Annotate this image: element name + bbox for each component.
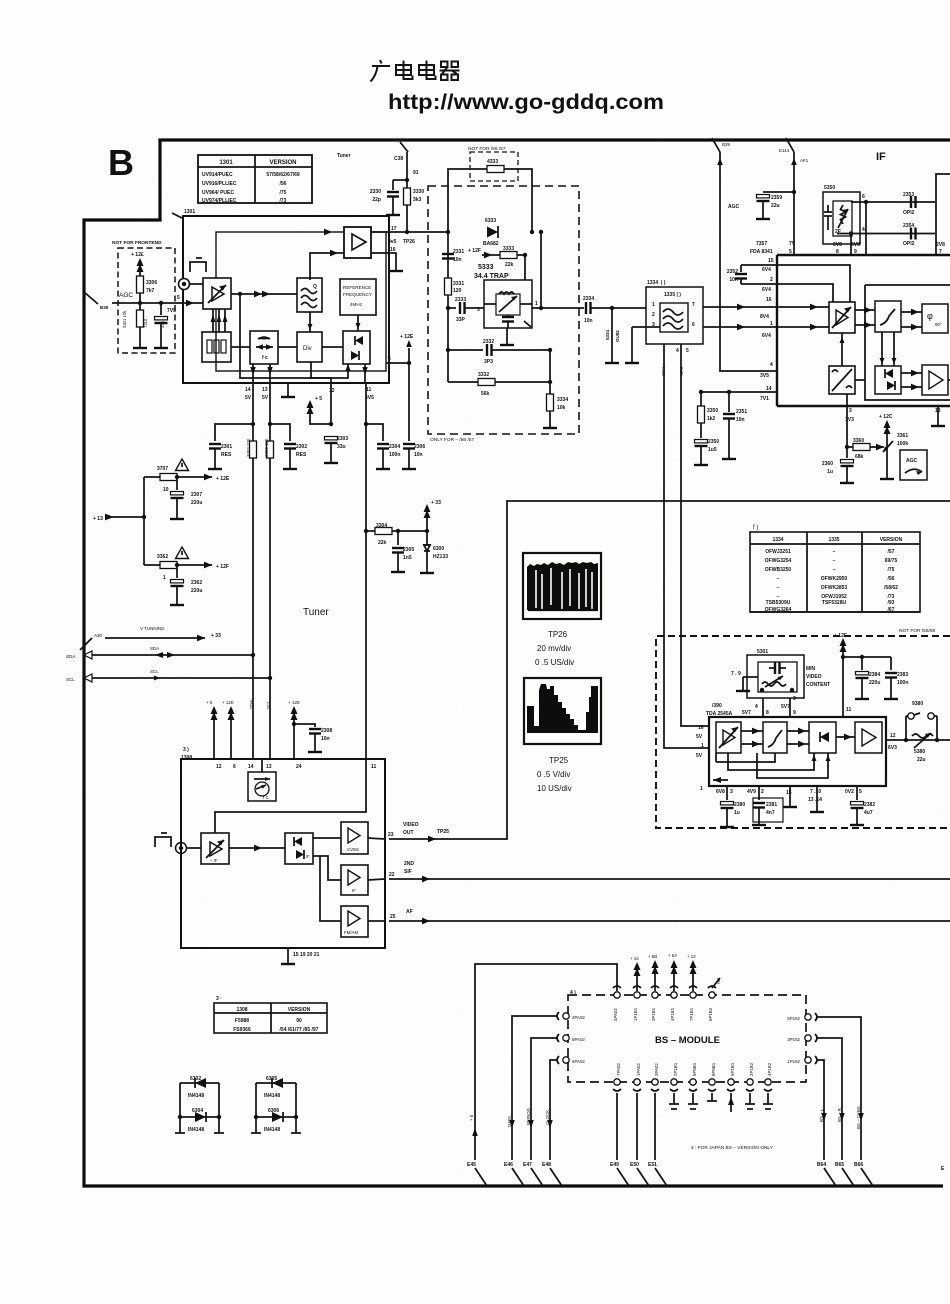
svg-text:13 .14: 13 .14 <box>808 797 822 803</box>
svg-text:MIN: MIN <box>806 666 816 672</box>
svg-text:5V: 5V <box>245 395 252 401</box>
svg-text:2354: 2354 <box>903 223 914 229</box>
svg-text:22: 22 <box>389 872 395 878</box>
svg-text:B39: B39 <box>100 305 109 310</box>
svg-text:7 .10: 7 .10 <box>810 789 821 795</box>
svg-text:/57: /57 <box>888 549 895 555</box>
svg-text:9: 9 <box>793 710 796 716</box>
svg-text:2384: 2384 <box>869 672 880 678</box>
svg-text:3334: 3334 <box>557 397 568 403</box>
svg-text:RES: RES <box>221 452 232 458</box>
svg-text:5: 5 <box>859 789 862 795</box>
svg-text:BS – MODULE: BS – MODULE <box>655 1035 720 1046</box>
svg-text:FREQUENCY: FREQUENCY <box>343 292 372 297</box>
svg-text:AF: AF <box>406 909 413 915</box>
svg-text:6P1B2: 6P1B2 <box>708 1007 713 1021</box>
svg-text:SCL: SCL <box>66 677 75 682</box>
svg-text:220u: 220u <box>191 588 202 594</box>
svg-text:/73: /73 <box>280 198 287 204</box>
svg-text:3360: 3360 <box>853 438 864 444</box>
svg-text:1: 1 <box>652 302 655 308</box>
svg-text:IN4148: IN4148 <box>188 1127 204 1133</box>
svg-text:2P1B1: 2P1B1 <box>673 1062 678 1076</box>
svg-text:3P162: 3P162 <box>787 1037 800 1042</box>
svg-text:2PA02: 2PA02 <box>572 1015 585 1020</box>
svg-text:3332: 3332 <box>478 372 489 378</box>
svg-text:6: 6 <box>692 322 695 328</box>
svg-text:UV964/ PUEC: UV964/ PUEC <box>202 190 234 196</box>
svg-text:1n5: 1n5 <box>403 555 412 561</box>
svg-text:B64: B64 <box>817 1162 826 1168</box>
svg-text:6304: 6304 <box>192 1108 203 1114</box>
svg-text:–: – <box>833 558 836 564</box>
svg-text:+ IF: + IF <box>210 858 218 863</box>
svg-text:10n: 10n <box>321 736 330 742</box>
svg-text:SCL: SCL <box>150 669 159 674</box>
svg-text:6333: 6333 <box>485 218 496 224</box>
svg-text:+ 12F: + 12F <box>834 633 847 639</box>
svg-text:2359: 2359 <box>771 195 782 201</box>
svg-text:1301: 1301 <box>219 160 233 166</box>
svg-text:4: 4 <box>755 704 758 710</box>
svg-text:VERSION: VERSION <box>880 537 903 543</box>
svg-text:220u: 220u <box>869 680 880 686</box>
svg-text:5: 5 <box>686 348 689 354</box>
svg-text:3: 3 <box>730 789 733 795</box>
svg-text:/67: /67 <box>888 607 895 613</box>
svg-text:6V8: 6V8 <box>851 242 860 248</box>
svg-text:3: 3 <box>793 696 796 702</box>
svg-text:3301 10k: 3301 10k <box>122 310 127 328</box>
svg-text:+ 5: + 5 <box>469 1114 474 1121</box>
svg-text:3k3: 3k3 <box>413 197 422 203</box>
svg-text:/93: /93 <box>888 600 895 606</box>
svg-text:3350: 3350 <box>707 408 718 414</box>
svg-text:6V4: 6V4 <box>762 333 771 339</box>
svg-text:–: – <box>777 576 780 582</box>
svg-text:90°: 90° <box>935 322 942 327</box>
svg-text:6V4: 6V4 <box>762 267 771 273</box>
svg-text:HD: HD <box>716 978 721 984</box>
svg-text:1308: 1308 <box>236 1007 247 1013</box>
svg-text:11: 11 <box>371 764 377 770</box>
svg-text:3P1B1: 3P1B1 <box>651 1007 656 1021</box>
svg-text:2301: 2301 <box>221 444 232 450</box>
svg-text:VERSION: VERSION <box>288 1007 311 1013</box>
svg-text:14: 14 <box>766 386 772 392</box>
svg-text:3362: 3362 <box>157 554 168 560</box>
svg-text:8: 8 <box>766 710 769 716</box>
svg-text:AF1: AF1 <box>800 158 809 163</box>
svg-text:–: – <box>777 585 780 591</box>
svg-text:BA682: BA682 <box>483 241 499 247</box>
svg-text:AGC: AGC <box>728 204 740 210</box>
svg-text:1P1B1: 1P1B1 <box>633 1007 638 1021</box>
svg-text:C38: C38 <box>394 156 403 162</box>
svg-text:8P5B1: 8P5B1 <box>711 1062 716 1076</box>
svg-text:16: 16 <box>390 247 396 253</box>
svg-text:4P1B1: 4P1B1 <box>670 1007 675 1021</box>
svg-text:22u: 22u <box>771 203 780 209</box>
svg-text:15 19 20 21: 15 19 20 21 <box>293 952 320 958</box>
svg-text:1: 1 <box>701 743 704 749</box>
svg-text:E46: E46 <box>504 1162 513 1168</box>
svg-text:SDA: SDA <box>66 654 75 659</box>
svg-text:5P5B1: 5P5B1 <box>692 1062 697 1076</box>
svg-text:3361: 3361 <box>897 433 908 439</box>
svg-text:15: 15 <box>768 258 774 264</box>
svg-text:Tuner: Tuner <box>303 607 329 618</box>
svg-text:2362: 2362 <box>191 580 202 586</box>
svg-text:7V1: 7V1 <box>760 396 769 402</box>
svg-text:69/75: 69/75 <box>885 558 898 564</box>
svg-text:4n7: 4n7 <box>766 810 775 816</box>
svg-text:2ND: 2ND <box>404 861 414 867</box>
svg-text:1334 | ): 1334 | ) <box>647 280 666 286</box>
svg-text:SDA: SDA <box>249 700 254 709</box>
svg-text:6300: 6300 <box>433 546 444 552</box>
svg-text:Tuner: Tuner <box>337 153 351 159</box>
svg-text:1u: 1u <box>734 810 740 816</box>
svg-text:1k2: 1k2 <box>707 416 716 422</box>
svg-text:22k: 22k <box>378 540 387 546</box>
svg-text:+ 12E: + 12E <box>288 700 300 705</box>
svg-text:1335 | ): 1335 | ) <box>664 292 681 298</box>
svg-text:2V8: 2V8 <box>936 242 945 248</box>
svg-text:3PA02: 3PA02 <box>654 1063 659 1076</box>
svg-text:14: 14 <box>245 387 251 393</box>
svg-text:F5988: F5988 <box>235 1018 249 1024</box>
svg-text:1u: 1u <box>827 469 833 475</box>
svg-text:5P162: 5P162 <box>787 1016 800 1021</box>
svg-text:4PA02: 4PA02 <box>613 1008 618 1021</box>
svg-text:2350: 2350 <box>708 439 719 445</box>
svg-text:1: 1 <box>770 321 773 327</box>
svg-text:Q: Q <box>313 284 317 290</box>
svg-text:/390: /390 <box>712 703 722 709</box>
svg-text:Div: Div <box>303 346 312 352</box>
svg-text:ONLY FOR – /56 /57: ONLY FOR – /56 /57 <box>430 437 474 443</box>
svg-text:13: 13 <box>262 387 268 393</box>
svg-text:+ 5: + 5 <box>315 396 322 402</box>
svg-text:SDA: SDA <box>150 646 159 651</box>
svg-text:17: 17 <box>391 226 397 232</box>
svg-text:SIF2: SIF2 <box>679 366 684 376</box>
svg-text:20 mv/div: 20 mv/div <box>537 644 571 653</box>
svg-text:2330: 2330 <box>370 189 381 195</box>
svg-text:–: – <box>833 549 836 555</box>
svg-text:IF: IF <box>876 151 886 163</box>
svg-text:8v5: 8v5 <box>388 239 397 245</box>
svg-text:13: 13 <box>266 764 272 770</box>
svg-text:10 US/div: 10 US/div <box>537 784 572 793</box>
svg-text:5350: 5350 <box>824 185 835 191</box>
svg-text:IN4148: IN4148 <box>188 1093 204 1099</box>
svg-text:OFWK2853: OFWK2853 <box>821 585 848 591</box>
svg-text:IN4148: IN4148 <box>264 1127 280 1133</box>
svg-text:FDA 8341: FDA 8341 <box>750 249 773 255</box>
svg-text:16: 16 <box>766 297 772 303</box>
svg-text:OUT: OUT <box>403 830 414 836</box>
svg-text:4: 4 <box>676 348 679 354</box>
svg-text:3P3: 3P3 <box>484 359 493 365</box>
svg-text:1V3: 1V3 <box>845 417 854 423</box>
svg-text:OFWK2950: OFWK2950 <box>821 576 848 582</box>
svg-text:5380: 5380 <box>914 749 925 755</box>
svg-text:http://www.go-gddq.com: http://www.go-gddq.com <box>388 91 664 114</box>
svg-text:3: 3 <box>477 307 480 313</box>
svg-text:7k7: 7k7 <box>146 288 155 294</box>
svg-text:φ: φ <box>927 311 933 321</box>
svg-text:2P1B2: 2P1B2 <box>749 1062 754 1076</box>
svg-text:/75: /75 <box>280 190 287 196</box>
svg-text:100k: 100k <box>897 441 908 447</box>
svg-text:SCL: SCL <box>266 700 271 709</box>
svg-text:5V: 5V <box>262 395 269 401</box>
svg-text:+ 12E: + 12E <box>222 700 234 705</box>
svg-text:5301: 5301 <box>757 649 768 655</box>
svg-text:2: 2 <box>761 789 764 795</box>
svg-text:33P: 33P <box>456 317 466 323</box>
svg-text:+ 33: + 33 <box>431 500 441 506</box>
svg-text:NOT FOR FRONTEND: NOT FOR FRONTEND <box>112 240 162 246</box>
svg-text:4: 4 <box>862 227 865 233</box>
svg-text:25: 25 <box>390 914 396 920</box>
svg-text:/56: /56 <box>280 181 287 187</box>
svg-text:+ 13: + 13 <box>93 516 103 522</box>
svg-text:34.4 TRAP: 34.4 TRAP <box>474 273 509 280</box>
svg-text:3304: 3304 <box>376 523 387 529</box>
svg-text:TP26: TP26 <box>403 239 415 245</box>
svg-text:V TUNNING: V TUNNING <box>140 626 165 631</box>
svg-text:–: – <box>833 567 836 573</box>
svg-text:220u: 220u <box>191 500 202 506</box>
svg-text:TSF5328U: TSF5328U <box>822 600 847 606</box>
svg-text:1: 1 <box>700 786 703 792</box>
svg-text:B: B <box>108 142 134 183</box>
svg-text:NOT FOR /56/58: NOT FOR /56/58 <box>899 628 935 634</box>
svg-text:4333: 4333 <box>487 159 498 165</box>
svg-text:10n: 10n <box>584 318 593 324</box>
svg-text:4: 4 <box>770 362 773 368</box>
svg-text:12: 12 <box>890 733 896 739</box>
svg-text:7357: 7357 <box>756 241 767 247</box>
svg-text:16: 16 <box>698 725 704 731</box>
svg-text:3331: 3331 <box>453 281 464 287</box>
svg-text:TSB5309U: TSB5309U <box>766 600 791 606</box>
svg-text:10n: 10n <box>729 277 738 283</box>
svg-text:FS9366: FS9366 <box>233 1027 251 1033</box>
svg-text:5V: 5V <box>696 734 703 740</box>
svg-text:UV916/PLLIEC: UV916/PLLIEC <box>202 181 237 187</box>
svg-text:f C: f C <box>263 795 270 800</box>
svg-text:6V8: 6V8 <box>833 242 842 248</box>
svg-text:4u7: 4u7 <box>864 810 873 816</box>
svg-text:+ 12E: + 12E <box>216 476 230 482</box>
svg-text:56k: 56k <box>481 391 490 397</box>
svg-text:IF: IF <box>306 854 310 859</box>
svg-text:3333: 3333 <box>503 246 514 252</box>
svg-text:2353: 2353 <box>903 192 914 198</box>
svg-text:SIF: SIF <box>404 869 412 875</box>
svg-text:15: 15 <box>786 790 792 796</box>
svg-text:1: 1 <box>163 575 166 581</box>
svg-text:9380: 9380 <box>912 701 923 707</box>
svg-text:REFERENCE: REFERENCE <box>343 285 371 290</box>
svg-text:1334: 1334 <box>772 537 783 543</box>
svg-text:5V7: 5V7 <box>742 710 751 716</box>
svg-text:6V8: 6V8 <box>716 789 725 795</box>
svg-text:2306: 2306 <box>414 444 425 450</box>
svg-text:2351: 2351 <box>736 409 747 415</box>
svg-text:TP25: TP25 <box>549 756 569 765</box>
svg-text:2380: 2380 <box>734 802 745 808</box>
svg-text:1335: 1335 <box>828 537 839 543</box>
svg-text:TP25: TP25 <box>437 829 449 835</box>
svg-text:TP26: TP26 <box>548 630 568 639</box>
svg-text:2382: 2382 <box>864 802 875 808</box>
svg-text:IF: IF <box>352 888 356 893</box>
svg-text:SIF1: SIF1 <box>661 366 666 376</box>
svg-text:OFWG3264: OFWG3264 <box>765 607 792 613</box>
svg-text:UV914/PUEC: UV914/PUEC <box>202 172 233 178</box>
svg-text:E50: E50 <box>630 1162 639 1168</box>
svg-text:FM/AM: FM/AM <box>344 930 358 935</box>
svg-text:VERSION: VERSION <box>269 160 296 166</box>
svg-text:7P1B1: 7P1B1 <box>689 1007 694 1021</box>
svg-text:6: 6 <box>388 356 391 362</box>
svg-text:2334: 2334 <box>583 296 594 302</box>
svg-text:B39: B39 <box>722 142 731 147</box>
svg-text:B66: B66 <box>854 1162 863 1168</box>
svg-text:E49: E49 <box>610 1162 619 1168</box>
svg-text:7: 7 <box>692 302 695 308</box>
svg-text:5V: 5V <box>696 753 703 759</box>
svg-text:120: 120 <box>453 288 462 294</box>
svg-text:2: 2 <box>770 277 773 283</box>
svg-text:3: 3 <box>849 408 852 414</box>
svg-text:2333: 2333 <box>455 297 466 303</box>
svg-text:3302 120: 3302 120 <box>246 438 251 457</box>
svg-text:OPI2: OPI2 <box>903 210 915 216</box>
svg-text:5V7: 5V7 <box>781 704 790 710</box>
svg-text:6V3: 6V3 <box>888 745 897 751</box>
svg-text:5PA02: 5PA02 <box>572 1037 585 1042</box>
svg-text:10n: 10n <box>736 417 745 423</box>
svg-text:VIDEO: VIDEO <box>403 822 419 828</box>
svg-text:4V9: 4V9 <box>747 789 756 795</box>
svg-text:OFWB3250: OFWB3250 <box>765 567 792 573</box>
svg-text:7V: 7V <box>789 241 796 247</box>
svg-text:6P1B1: 6P1B1 <box>730 1062 735 1076</box>
svg-text:6V4: 6V4 <box>762 287 771 293</box>
svg-text:0 .5 US/div: 0 .5 US/div <box>535 658 574 667</box>
svg-text:2352: 2352 <box>727 269 738 275</box>
svg-text:4P1B2: 4P1B2 <box>767 1062 772 1076</box>
svg-text:OU82: OU82 <box>615 330 620 342</box>
svg-text:+ 5: + 5 <box>206 700 213 705</box>
svg-text:2383: 2383 <box>897 672 908 678</box>
svg-text:91: 91 <box>413 170 419 176</box>
svg-text:24: 24 <box>296 764 302 770</box>
svg-text:6: 6 <box>233 764 236 770</box>
svg-text:+ 5A: + 5A <box>668 953 677 958</box>
svg-text:/58/62: /58/62 <box>884 585 898 591</box>
svg-text:57/58/62/67/69: 57/58/62/67/69 <box>266 172 300 178</box>
svg-text:OPI2: OPI2 <box>903 241 915 247</box>
svg-text:6: 6 <box>862 194 865 200</box>
svg-text:7 . 9: 7 . 9 <box>731 671 741 677</box>
svg-text:5: 5 <box>177 295 180 301</box>
svg-text:CONTENT: CONTENT <box>806 682 830 688</box>
svg-text:3 ): 3 ) <box>183 747 189 753</box>
svg-text:2: 2 <box>652 312 655 318</box>
svg-text:f c: f c <box>262 355 268 361</box>
svg-text:3 ·: 3 · <box>216 996 222 1002</box>
svg-text:2308: 2308 <box>321 728 332 734</box>
svg-text:4MHz: 4MHz <box>350 302 363 307</box>
svg-text:E45: E45 <box>467 1162 476 1168</box>
svg-text:+ 12E: + 12E <box>400 334 414 340</box>
svg-text:22p: 22p <box>372 197 381 203</box>
svg-text:7PA02: 7PA02 <box>616 1063 621 1076</box>
svg-text:NOT FOR /56 /57: NOT FOR /56 /57 <box>468 146 506 152</box>
svg-text:8V4: 8V4 <box>760 314 769 320</box>
svg-text:2302: 2302 <box>296 444 307 450</box>
svg-text:1PA02: 1PA02 <box>636 1063 641 1076</box>
svg-text:10n: 10n <box>414 452 423 458</box>
svg-text:1301: 1301 <box>184 209 195 215</box>
svg-text:4 : FOR JAPAN BS – VERSION ON: 4 : FOR JAPAN BS – VERSION ONLY <box>691 1145 774 1151</box>
svg-text:+ 12F: + 12F <box>468 248 481 254</box>
svg-text:22u: 22u <box>917 757 926 763</box>
svg-text:23: 23 <box>388 832 394 838</box>
svg-text:22k: 22k <box>505 262 514 268</box>
svg-text:11: 11 <box>846 707 852 713</box>
svg-text:AGC: AGC <box>906 458 918 464</box>
svg-text:12: 12 <box>329 388 335 394</box>
svg-text:0V2: 0V2 <box>845 789 854 795</box>
svg-text:2307: 2307 <box>191 492 202 498</box>
svg-text:VIDEO: VIDEO <box>806 674 822 680</box>
svg-text:12: 12 <box>216 764 222 770</box>
svg-text:1P162: 1P162 <box>787 1059 800 1064</box>
svg-text:IN4148: IN4148 <box>264 1093 280 1099</box>
svg-text:2305: 2305 <box>403 547 414 553</box>
svg-text:10n: 10n <box>453 257 462 263</box>
svg-text:5334: 5334 <box>605 329 610 340</box>
svg-text:2331: 2331 <box>453 249 464 255</box>
svg-text:33u: 33u <box>337 444 346 450</box>
svg-text:A30: A30 <box>94 633 103 638</box>
svg-text:33u: 33u <box>160 320 165 328</box>
svg-text:+ 12C: + 12C <box>879 414 893 420</box>
svg-text:+ 33: + 33 <box>211 633 221 639</box>
svg-text:/54 /61/77 /85 /97: /54 /61/77 /85 /97 <box>280 1027 319 1033</box>
svg-text:CVBS: CVBS <box>347 847 359 852</box>
svg-text:5333: 5333 <box>478 264 494 271</box>
svg-text:3306: 3306 <box>146 280 157 286</box>
svg-text:100n: 100n <box>389 452 400 458</box>
svg-text:+ 12£: + 12£ <box>131 252 144 258</box>
svg-text:90: 90 <box>296 1018 302 1024</box>
svg-text:10: 10 <box>163 487 169 493</box>
svg-text:6PA02: 6PA02 <box>572 1059 585 1064</box>
svg-text:7310: 7310 <box>143 318 148 328</box>
svg-text:/56: /56 <box>888 576 895 582</box>
svg-text:UV974/PLLIEC: UV974/PLLIEC <box>202 198 237 204</box>
svg-text:E51: E51 <box>648 1162 657 1168</box>
